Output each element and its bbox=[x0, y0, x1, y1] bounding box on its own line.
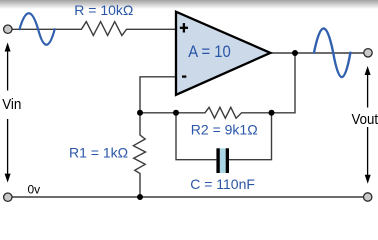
svg-text:R2 = 9k1Ω: R2 = 9k1Ω bbox=[191, 122, 258, 138]
svg-text:Vout: Vout bbox=[352, 112, 378, 128]
junction capacitor right bbox=[269, 110, 275, 116]
Vout measurement arrow upper bbox=[365, 66, 371, 108]
op-amp minus input symbol bbox=[182, 75, 186, 77]
terminal bottom right bbox=[364, 193, 372, 201]
wire feedback row with resistor R2 zigzag bbox=[140, 53, 295, 118]
wire capacitor branch right bbox=[229, 113, 272, 160]
resistor R1 (vertical) bbox=[133, 113, 145, 197]
capacitor C bbox=[216, 148, 229, 173]
svg-text:Vin: Vin bbox=[2, 97, 21, 113]
svg-text:0v: 0v bbox=[28, 183, 41, 197]
input sine wave bbox=[20, 13, 55, 45]
junction output node bbox=[292, 50, 298, 56]
svg-text:R = 10kΩ: R = 10kΩ bbox=[74, 2, 133, 18]
junction R1 bottom bbox=[137, 194, 143, 200]
terminal input bbox=[4, 25, 12, 33]
svg-text:R1 = 1kΩ: R1 = 1kΩ bbox=[69, 145, 128, 161]
op-amp plus input symbol bbox=[180, 23, 188, 32]
wire bottom 0v rail bbox=[12, 196, 363, 198]
svg-text:A = 10: A = 10 bbox=[188, 43, 231, 61]
terminal output bbox=[364, 49, 372, 57]
Vin measurement arrow lower bbox=[5, 119, 11, 183]
output sine wave bbox=[314, 28, 350, 77]
op-amp U1 bbox=[176, 12, 270, 95]
wire op-amp inverting input to node bbox=[140, 77, 175, 113]
Vout measurement arrow lower bbox=[365, 127, 371, 184]
Vin measurement arrow upper bbox=[5, 43, 11, 91]
wire op-amp output bbox=[271, 52, 364, 54]
wire input + resistor R zigzag to op-amp bbox=[12, 22, 175, 36]
junction capacitor left bbox=[173, 110, 179, 116]
terminal bottom left bbox=[4, 193, 12, 201]
junction inverting node bbox=[137, 110, 143, 116]
svg-text:C = 110nF: C = 110nF bbox=[190, 176, 255, 192]
wire capacitor branch left bbox=[176, 113, 216, 160]
